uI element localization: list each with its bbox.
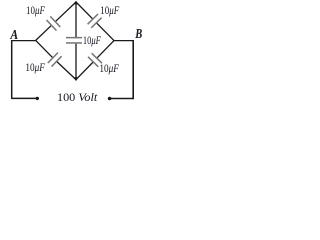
node: battery left terminal dot <box>36 97 39 100</box>
arrowhead at top vertex pointing up <box>74 1 79 5</box>
svg-text:10μF: 10μF <box>25 62 45 74</box>
wire: middle branch upper segment (top vertex to C3 top plate) <box>75 2 77 37</box>
wire: upper-right diagonal upper segment (top vertex toward C2) <box>76 2 93 19</box>
label: C2 value 10uF <box>100 5 120 17</box>
capacitor C4 10uF lower-left: plates <box>48 53 62 67</box>
wire: left outer vertical from node A down to bottom rail <box>11 40 13 98</box>
wire: lower-right diagonal upper segment (B vertex toward C5) <box>97 41 114 59</box>
wire: lower-left diagonal lower segment (C4 toward bottom vertex) <box>57 61 76 79</box>
wire: bottom-left rail to battery left terminal <box>11 97 36 99</box>
wire: lower-left diagonal upper segment (A vertex toward C4) <box>36 40 53 57</box>
wire: upper-left diagonal upper segment (C1 toward top vertex) <box>55 2 76 22</box>
wire: upper-right diagonal lower segment (C2 toward B vertex) <box>96 23 114 41</box>
wire: middle branch lower segment (C3 bottom plate to bottom vertex) <box>75 44 77 80</box>
label: C3 value 10uF <box>83 35 102 47</box>
capacitor C5 10uF lower-right: plates <box>88 53 102 67</box>
capacitor C1 10uF upper-left: plates <box>47 16 61 30</box>
svg-text:10μF: 10μF <box>99 63 119 75</box>
wire: right stub from right bridge vertex to node B corner <box>114 40 134 42</box>
wire: battery right terminal to bottom-right corner <box>111 98 133 100</box>
capacitor C2 10uF upper-right: plates <box>88 14 102 28</box>
label: source value 100 Volt <box>57 90 98 104</box>
label: C5 value 10uF <box>99 63 119 75</box>
wire: lower-right diagonal lower segment (C5 toward bottom vertex) <box>76 62 93 80</box>
svg-text:10μF: 10μF <box>100 5 120 17</box>
arrowhead at bottom vertex pointing down <box>74 77 79 81</box>
svg-text:B: B <box>134 26 142 41</box>
label: C4 value 10uF <box>25 62 45 74</box>
svg-text:100 Volt: 100 Volt <box>57 90 98 104</box>
wire: upper-left diagonal lower segment (A vertex toward C1) <box>36 25 52 40</box>
wire: left stub from node A corner to left bridge vertex <box>12 40 36 42</box>
node A label <box>10 28 19 43</box>
node B label <box>134 26 142 41</box>
label: C1 value 10uF <box>26 5 46 17</box>
svg-text:10μF: 10μF <box>83 35 102 47</box>
capacitor C3 10uF middle branch: plates <box>66 38 82 43</box>
svg-text:A: A <box>10 28 19 43</box>
svg-text:10μF: 10μF <box>26 5 46 17</box>
node: battery right terminal dot <box>108 97 112 101</box>
wire: right outer vertical from bottom rail up to node B <box>132 40 134 99</box>
